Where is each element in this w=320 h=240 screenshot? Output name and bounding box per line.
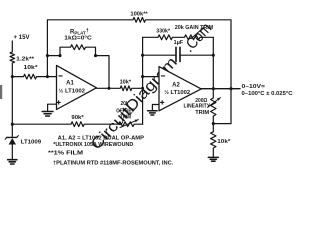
svg-text:TRIM: TRIM xyxy=(120,115,131,121)
svg-text:½ LT1002: ½ LT1002 xyxy=(164,89,190,96)
svg-text:A1, A2 = LT1002 DUAL OP-AMP: A1, A2 = LT1002 DUAL OP-AMP xyxy=(58,135,144,141)
svg-text:330k*: 330k* xyxy=(156,28,170,34)
svg-text:1kΩ=0°C: 1kΩ=0°C xyxy=(64,35,92,41)
svg-text:*ULTRONIX 105A WIREWOUND: *ULTRONIX 105A WIREWOUND xyxy=(53,142,133,148)
svg-text:+ 15V: + 15V xyxy=(14,35,30,41)
svg-text:10k*: 10k* xyxy=(24,65,39,71)
svg-text:†PLATINUM RTD #118MF-ROSEMOUNT: †PLATINUM RTD #118MF-ROSEMOUNT, INC. xyxy=(53,160,174,166)
svg-text:**1% FILM: **1% FILM xyxy=(48,151,83,157)
svg-text:20k GAIN TRIM: 20k GAIN TRIM xyxy=(175,25,214,31)
svg-text:LINEARITY: LINEARITY xyxy=(184,104,211,110)
svg-text:OFFSET: OFFSET xyxy=(116,108,134,114)
svg-text:1.2k**: 1.2k** xyxy=(16,57,35,63)
svg-text:0–10V=: 0–10V= xyxy=(242,84,266,90)
svg-text:0–100°C ± 0.025°C: 0–100°C ± 0.025°C xyxy=(242,91,294,97)
svg-text:90k*: 90k* xyxy=(71,115,84,121)
svg-text:10k*: 10k* xyxy=(120,79,132,85)
svg-text:A1: A1 xyxy=(66,81,74,87)
svg-text:10k*: 10k* xyxy=(217,139,231,145)
svg-text:LT1009: LT1009 xyxy=(21,140,42,146)
svg-text:100k**: 100k** xyxy=(130,11,148,17)
svg-text:1μF: 1μF xyxy=(174,40,184,46)
svg-text:A2: A2 xyxy=(172,83,180,89)
svg-text:TRIM: TRIM xyxy=(195,110,209,116)
svg-text:½ LT1002: ½ LT1002 xyxy=(58,88,85,95)
svg-text:20k: 20k xyxy=(121,101,130,107)
